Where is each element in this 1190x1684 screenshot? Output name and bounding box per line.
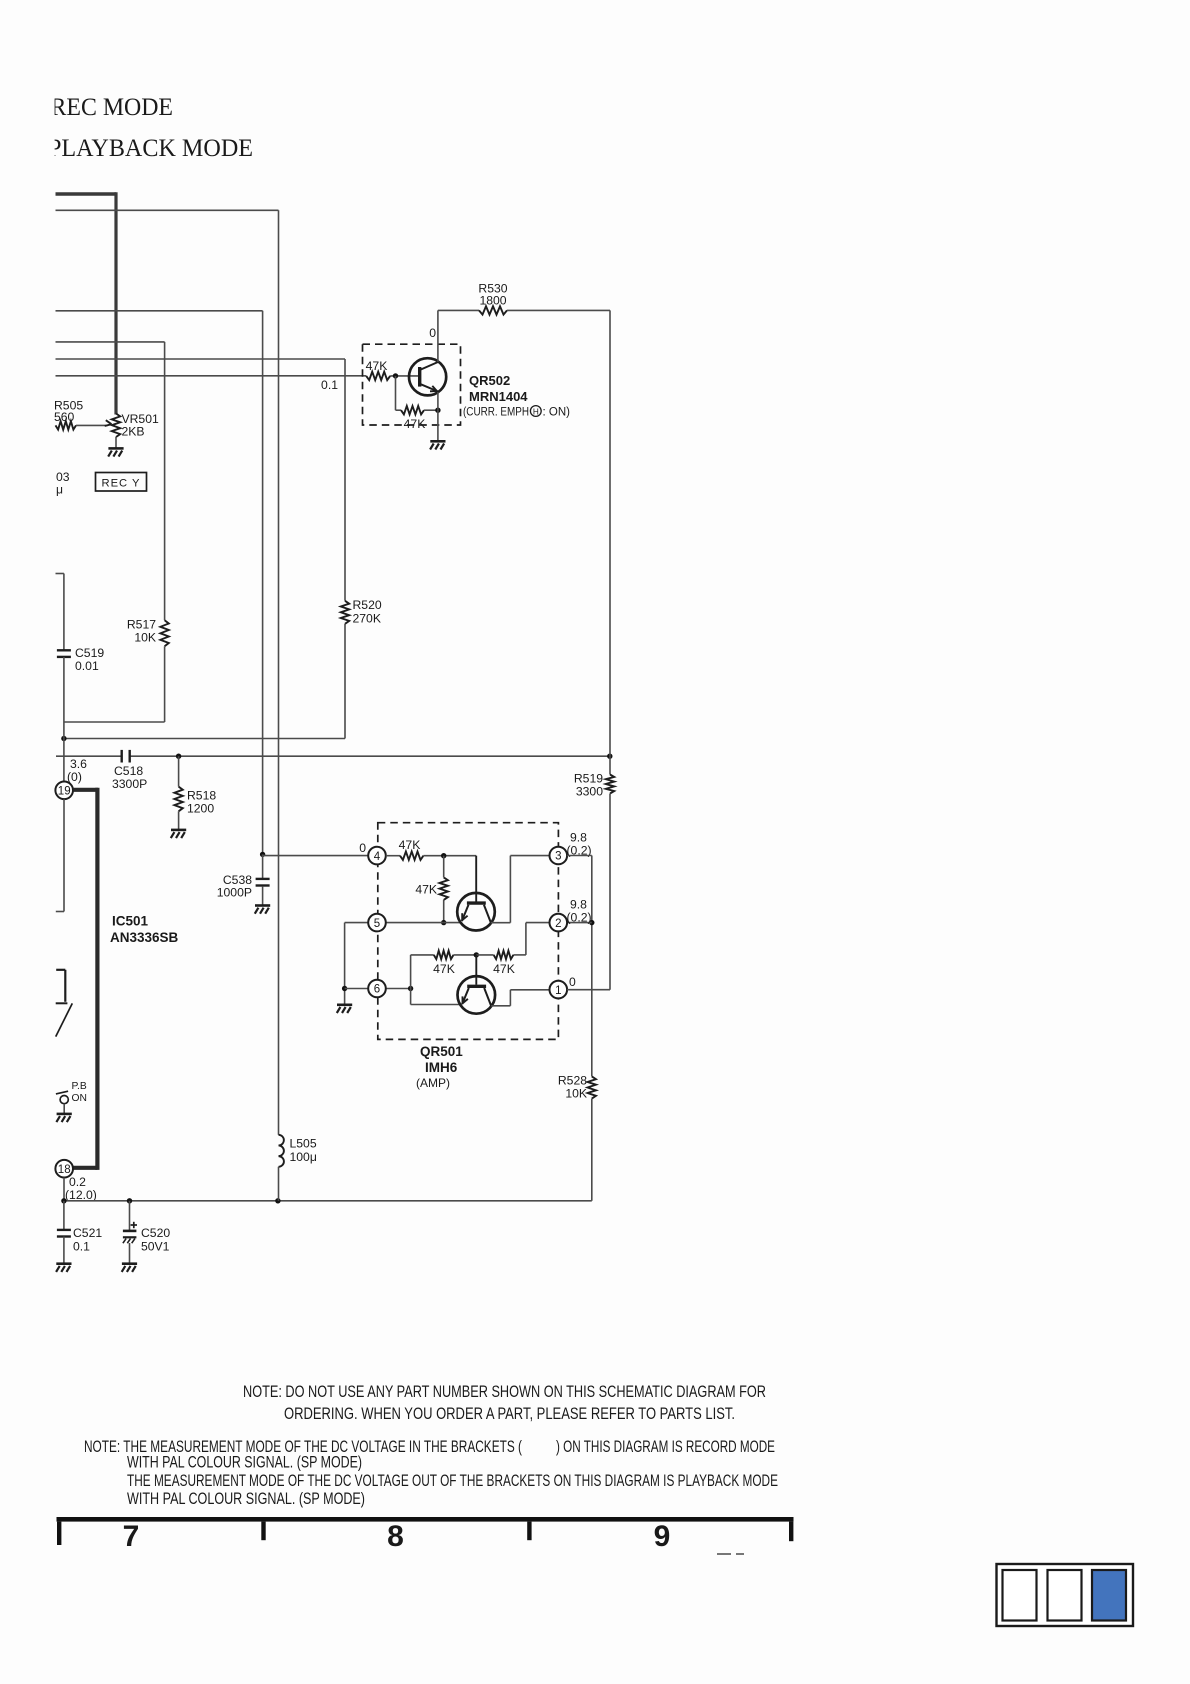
svg-text:0.2: 0.2	[69, 1175, 86, 1189]
wire horizontal to L505 rail	[56, 210, 279, 1135]
label 0.1	[321, 378, 338, 392]
node pin6 left	[342, 986, 347, 991]
page cell 2	[1048, 1570, 1082, 1621]
svg-text:7: 7	[123, 1520, 140, 1553]
label 0 pin1	[569, 975, 576, 989]
capacitor C520	[123, 1201, 170, 1264]
svg-text:8: 8	[387, 1520, 404, 1553]
pin 4	[368, 847, 386, 865]
svg-text:H: H	[533, 408, 539, 417]
label 3.6	[67, 757, 87, 784]
resistor R517	[127, 618, 169, 723]
ground C521	[56, 1264, 71, 1272]
svg-text:C520: C520	[141, 1226, 170, 1240]
dashed box QR501	[378, 823, 559, 1040]
svg-text:100μ: 100μ	[290, 1150, 317, 1164]
svg-text:QR501: QR501	[420, 1044, 463, 1059]
page cell 1	[1003, 1570, 1037, 1621]
capacitor C519	[57, 646, 104, 781]
label 0 collector	[429, 326, 436, 340]
capacitor C521	[57, 1201, 102, 1264]
ruler 7	[123, 1520, 140, 1553]
varistor VR501	[112, 412, 159, 448]
wire R530 down rail	[609, 310, 611, 774]
label QR501	[420, 1044, 463, 1059]
box REC Y	[96, 473, 147, 492]
note line 1	[243, 1383, 766, 1401]
svg-text:47K: 47K	[433, 962, 455, 976]
ground R518	[171, 830, 186, 838]
resistor 47K lower right	[476, 951, 515, 976]
svg-text:4: 4	[374, 851, 381, 863]
svg-text:0: 0	[429, 326, 436, 340]
pin 3	[550, 847, 568, 865]
svg-text:3300: 3300	[576, 785, 603, 799]
svg-text:47K: 47K	[493, 962, 515, 976]
wire pin3 right	[567, 856, 592, 1077]
label IC501	[112, 914, 149, 929]
svg-text:6: 6	[374, 984, 380, 996]
resistor R530	[438, 282, 610, 315]
capacitor C538	[217, 854, 270, 905]
node pin2 right	[589, 920, 594, 925]
svg-text:R528: R528	[558, 1074, 587, 1088]
svg-text:3: 3	[555, 851, 561, 863]
wire horizontal to C538 rail	[56, 311, 263, 855]
wire collector lower	[491, 990, 549, 1006]
inductor L505	[279, 1135, 317, 1201]
capacitor C518	[112, 750, 147, 791]
wire bottom rail	[64, 1200, 592, 1202]
wire horizontal to R517	[56, 342, 165, 620]
label C503 fragment	[56, 470, 70, 497]
svg-text:μ: μ	[56, 483, 63, 497]
wire R520 bottom rail	[64, 738, 345, 740]
wire emitter to ground QR502	[437, 392, 439, 441]
svg-text:0.01: 0.01	[75, 659, 99, 673]
svg-text:270K: 270K	[353, 612, 381, 626]
node R519 top	[607, 754, 612, 759]
svg-text:(12.0): (12.0)	[65, 1188, 97, 1202]
svg-text:9: 9	[654, 1520, 671, 1553]
pin 2	[550, 914, 568, 932]
title PLAYBACK MODE	[0, 88, 253, 163]
wire C518 line	[56, 755, 610, 757]
wire pin2 line	[526, 922, 592, 924]
resistor R505	[54, 399, 112, 430]
pin 18	[55, 1160, 73, 1178]
svg-text:PLAYBACK MODE: PLAYBACK MODE	[48, 135, 253, 162]
ground PB	[56, 1114, 71, 1122]
page indicator box	[997, 1564, 1134, 1626]
wire left rail top	[56, 574, 64, 651]
wire collector upper	[491, 856, 550, 923]
svg-text:560: 560	[54, 410, 75, 424]
svg-text:5: 5	[374, 918, 380, 930]
ruler 8	[387, 1520, 404, 1553]
svg-text:L505: L505	[290, 1137, 317, 1151]
note line 5	[127, 1472, 778, 1490]
svg-text:47K: 47K	[415, 883, 437, 897]
label IMH6	[425, 1060, 458, 1075]
wire thick top rail	[56, 192, 117, 414]
label 9.8 pin3	[567, 831, 592, 858]
wire pin5 ground rail	[344, 923, 346, 1005]
svg-text:2KB: 2KB	[122, 425, 145, 439]
wire R517 bottom	[64, 721, 165, 723]
svg-text:P.B: P.B	[72, 1081, 87, 1092]
svg-text:R517: R517	[127, 618, 156, 632]
node 47K a	[441, 853, 446, 858]
ground C520	[122, 1264, 137, 1272]
label AMP	[416, 1076, 450, 1090]
ruler 9	[654, 1520, 671, 1553]
switch PB ON	[56, 1081, 87, 1114]
svg-text:THE MEASUREMENT MODE OF THE DC: THE MEASUREMENT MODE OF THE DC VOLTAGE O…	[127, 1472, 778, 1490]
wire thick IC bracket	[73, 788, 98, 1170]
svg-text:1: 1	[555, 985, 561, 997]
svg-text:REC MODE: REC MODE	[51, 94, 174, 121]
svg-text:REC Y: REC Y	[102, 478, 141, 490]
resistor R519	[574, 772, 614, 990]
label AN3336SB	[110, 930, 179, 945]
label QR502	[469, 373, 510, 388]
svg-text:0: 0	[569, 975, 576, 989]
svg-text:(0.2): (0.2)	[567, 911, 592, 925]
wire pin6 line	[345, 988, 411, 990]
node bottom pin18	[61, 1198, 66, 1203]
wire 0.1 base line	[56, 375, 367, 377]
wire collector QR502	[437, 310, 439, 362]
svg-text:WITH PAL COLOUR SIGNAL. (SP: WITH PAL COLOUR SIGNAL. (SP MODE)	[127, 1490, 365, 1508]
node pin6 right	[408, 986, 413, 991]
ground VR501	[108, 448, 123, 456]
resistor 47K vertical	[415, 856, 448, 923]
wire horizontal to R520	[56, 359, 346, 601]
label CURR EMPH	[463, 406, 570, 419]
pin 19	[55, 782, 73, 800]
svg-text:R520: R520	[353, 598, 382, 612]
svg-text:47K: 47K	[404, 417, 426, 431]
pin 5	[368, 914, 386, 932]
svg-text:: ON): : ON)	[543, 407, 571, 419]
page cell 3 active	[1092, 1570, 1126, 1621]
wire pin18 stub	[63, 1178, 65, 1201]
label MRN1404	[469, 389, 528, 404]
wire base node down	[395, 376, 397, 410]
svg-text:0: 0	[359, 841, 366, 855]
svg-text:R518: R518	[187, 789, 216, 803]
resistor R520	[341, 598, 382, 739]
svg-text:19: 19	[58, 786, 71, 798]
svg-text:MRN1404: MRN1404	[469, 389, 528, 404]
svg-text:50V1: 50V1	[141, 1240, 170, 1254]
svg-text:9.8: 9.8	[570, 898, 587, 912]
pin 1	[550, 981, 568, 999]
svg-text:C521: C521	[73, 1226, 102, 1240]
svg-text:WITH PAL COLOUR SIGNAL. (SP M: WITH PAL COLOUR SIGNAL. (SP MODE)	[127, 1454, 362, 1472]
wire pin5 line	[345, 922, 461, 924]
svg-text:0.1: 0.1	[321, 378, 338, 392]
note line 6	[127, 1490, 365, 1508]
resistor 47K base QR502	[366, 359, 419, 380]
svg-text:IMH6: IMH6	[425, 1060, 458, 1075]
svg-text:47K: 47K	[366, 359, 388, 373]
dashed box QR502	[363, 344, 461, 425]
resistor R518	[174, 756, 216, 830]
transistor QR501 upper	[457, 856, 495, 931]
node R518	[176, 754, 181, 759]
svg-text:1800: 1800	[479, 294, 506, 308]
svg-text:(CURR. EMPH: (CURR. EMPH	[463, 407, 529, 419]
resistor 47K pin4	[386, 838, 476, 860]
stub fragment	[56, 970, 73, 1037]
svg-text:9.8: 9.8	[570, 831, 587, 845]
svg-text:10K: 10K	[134, 631, 156, 645]
svg-text:1200: 1200	[187, 802, 214, 816]
resistor 47K lower left	[411, 951, 477, 976]
svg-text:3300P: 3300P	[112, 777, 147, 791]
node C538 top	[260, 852, 265, 857]
wire pin1 right	[567, 989, 610, 991]
note line 2	[284, 1405, 735, 1423]
svg-text:10K: 10K	[565, 1087, 587, 1101]
node 47K b	[441, 920, 446, 925]
svg-text:1000P: 1000P	[217, 886, 252, 900]
transistor QR501 lower	[458, 955, 496, 1014]
resistor 47K emitter QR502	[396, 406, 438, 431]
ruler bar	[57, 1517, 794, 1545]
pin 6	[368, 980, 386, 998]
wire pin2 to 47K	[513, 923, 526, 955]
svg-text:IC501: IC501	[112, 914, 149, 929]
label 0 pin4	[359, 841, 366, 855]
svg-text:C518: C518	[114, 764, 143, 778]
title REC MODE	[51, 94, 174, 121]
svg-text:0.1: 0.1	[73, 1240, 90, 1254]
wire emitter lower	[411, 1004, 462, 1006]
transistor QR502	[409, 358, 446, 395]
note line 4	[127, 1454, 362, 1472]
svg-text:) ON THIS DIAGRAM IS RECORD MO: ) ON THIS DIAGRAM IS RECORD MODE	[556, 1438, 775, 1456]
svg-text:NOTE: DO NOT USE ANY PART NUMB: NOTE: DO NOT USE ANY PART NUMBER SHOWN O…	[243, 1383, 766, 1401]
ground QR502	[430, 441, 445, 449]
node bottom L505	[275, 1198, 280, 1203]
svg-text:47K: 47K	[399, 838, 421, 852]
note line 3	[84, 1438, 775, 1456]
ground C538	[255, 906, 270, 914]
node 47K mid	[474, 952, 479, 957]
svg-text:2: 2	[555, 918, 561, 930]
label 9.8 pin2	[567, 898, 592, 925]
ruler dashes	[717, 1553, 744, 1555]
svg-text:(AMP): (AMP)	[416, 1076, 450, 1090]
wire below pin19	[56, 799, 64, 911]
node base QR502	[393, 373, 398, 378]
svg-text:AN3336SB: AN3336SB	[110, 930, 179, 945]
node emitter QR502	[435, 408, 440, 413]
svg-text:ORDERING. WHEN YOU ORDER A P: ORDERING. WHEN YOU ORDER A PART, PLEASE …	[284, 1405, 735, 1423]
label 0.2 pin18	[65, 1175, 97, 1202]
wire pin6 node up	[410, 955, 412, 1005]
svg-text:C519: C519	[75, 646, 104, 660]
resistor R528	[558, 1074, 596, 1201]
ground pin56	[337, 1005, 352, 1013]
svg-text:QR502: QR502	[469, 373, 510, 388]
svg-text:ON: ON	[72, 1093, 87, 1104]
svg-text:R519: R519	[574, 772, 603, 786]
node left rail junction	[61, 736, 66, 741]
node bottom C520	[127, 1198, 132, 1203]
svg-text:3.6: 3.6	[70, 757, 87, 771]
wire pin4 line	[263, 854, 369, 855]
